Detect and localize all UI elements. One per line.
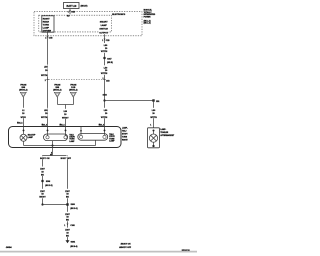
svg-text:LAMP: LAMP: [69, 140, 75, 143]
svg-text:BATT A0: BATT A0: [66, 5, 76, 8]
svg-text:WT/GY: WT/GY: [62, 117, 69, 119]
svg-text:STOP/: STOP/: [122, 134, 128, 136]
svg-text:(BK137): (BK137): [81, 5, 88, 7]
svg-text:TRAILER: TRAILER: [160, 131, 168, 134]
svg-text:LAMP: LAMP: [101, 24, 108, 27]
svg-text:(BK01-4): (BK01-4): [69, 88, 78, 91]
svg-text:REAR: REAR: [43, 20, 50, 23]
svg-text:1: 1: [102, 40, 103, 42]
svg-text:S308: S308: [46, 181, 50, 183]
svg-text:POWER: POWER: [144, 17, 151, 19]
svg-text:B31-A: B31-A: [42, 123, 48, 126]
svg-text:B31-A: B31-A: [59, 123, 65, 126]
svg-text:TAIL/: TAIL/: [122, 130, 127, 133]
svg-text:BODY ON: BODY ON: [40, 158, 50, 160]
svg-text:WT/TN: WT/TN: [150, 117, 157, 119]
svg-text:AFTERMARKET: AFTERMARKET: [160, 134, 175, 137]
svg-text:##BODY OFF: ##BODY OFF: [119, 247, 132, 249]
svg-text:DRIVER: DRIVER: [43, 30, 52, 32]
svg-text:WT/TN: WT/TN: [101, 117, 108, 119]
svg-text:BK/GY: BK/GY: [39, 197, 46, 199]
svg-text:B31-A: B31-A: [17, 121, 23, 124]
svg-text:RIGHT: RIGHT: [122, 140, 128, 142]
svg-text:WT/TN: WT/TN: [41, 117, 48, 119]
svg-text:4: 4: [45, 37, 46, 40]
svg-text:C308: C308: [70, 225, 74, 227]
svg-text:LAMP: LAMP: [43, 26, 50, 29]
svg-text:(BK-1-4): (BK-1-4): [144, 22, 151, 25]
svg-text:LAMP-: LAMP-: [160, 128, 166, 131]
svg-text:(BK-S-2): (BK-S-2): [45, 185, 53, 187]
svg-text:S317: S317: [107, 58, 111, 60]
svg-text:1: 1: [64, 225, 65, 227]
svg-text:LAMP-: LAMP-: [122, 127, 128, 130]
svg-text:WT/TN: WT/TN: [41, 75, 48, 77]
svg-text:SMART: SMART: [100, 20, 108, 23]
svg-text:WT/TN: WT/TN: [101, 73, 108, 75]
svg-text:1: 1: [150, 125, 151, 127]
svg-text:(BK-S-1): (BK-S-1): [70, 208, 78, 210]
svg-text:E31: E31: [156, 101, 159, 103]
svg-text:S316: S316: [103, 94, 107, 96]
svg-text:ELECTRONICS: ELECTRONICS: [112, 14, 126, 16]
svg-text:S300: S300: [71, 204, 75, 206]
svg-text:TURN: TURN: [43, 24, 49, 26]
svg-text:LAMP: LAMP: [28, 136, 34, 139]
svg-text:2: 2: [45, 80, 46, 82]
svg-text:G304: G304: [71, 241, 75, 244]
svg-text:OUTPUT: OUTPUT: [99, 32, 109, 34]
svg-text:JA0B4: JA0B4: [6, 246, 13, 249]
svg-text:(BK01-2): (BK01-2): [53, 89, 62, 91]
svg-text:1: 1: [103, 78, 104, 80]
svg-text:(BK-8-4): (BK-8-4): [70, 245, 77, 248]
svg-text:1: 1: [68, 11, 69, 13]
svg-text:WT/O: WT/O: [21, 117, 27, 119]
svg-text:WT/TN: WT/TN: [101, 51, 108, 53]
svg-text:B31-A: B31-A: [99, 123, 105, 126]
svg-text:(BK-E): (BK-E): [107, 62, 113, 64]
svg-text:LAMP: LAMP: [109, 139, 115, 142]
svg-text:SWITCH: SWITCH: [99, 29, 108, 31]
svg-text:(BK01-2): (BK01-2): [19, 89, 28, 91]
svg-text:TURN: TURN: [122, 137, 128, 139]
svg-text:RIGHT: RIGHT: [43, 18, 50, 20]
svg-text:BODY OFF: BODY OFF: [61, 158, 72, 160]
svg-text:#BODY ON: #BODY ON: [121, 243, 131, 245]
